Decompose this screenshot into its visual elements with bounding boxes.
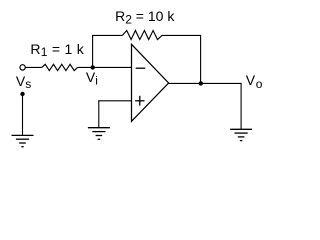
wire: terminal to R1 (25, 66, 42, 68)
op-amp plus sign (135, 100, 144, 102)
resistor R2 (122, 31, 162, 40)
wire: feedback left vertical (92, 35, 94, 67)
ground (output) (230, 129, 252, 140)
wire: feedback top left segment (92, 34, 122, 36)
wire: feedback right vertical (200, 35, 202, 83)
svg-text:R2 = 10 k: R2 = 10 k (115, 8, 175, 26)
op-amp minus sign (136, 67, 146, 69)
wire: non-inverting input (98, 100, 132, 102)
ground (source) (12, 135, 34, 146)
ground (op-amp + input) (88, 128, 110, 140)
op-amp U1 triangle (132, 44, 169, 121)
resistor R1 (42, 64, 78, 70)
source junction dot (20, 92, 24, 96)
wire: down to middle ground (98, 100, 100, 127)
node Vi junction dot (91, 65, 95, 69)
wire: down to right ground (240, 83, 242, 129)
source terminal circle Vs (20, 65, 25, 70)
output junction dot (199, 81, 203, 85)
wire: op-amp output (168, 82, 242, 84)
wire: feedback top right segment (162, 34, 201, 36)
wire: source dot down to left ground (22, 94, 24, 135)
svg-text:R1 = 1 k: R1 = 1 k (30, 41, 84, 59)
wire: R1 to op-amp inverting input (78, 66, 132, 68)
